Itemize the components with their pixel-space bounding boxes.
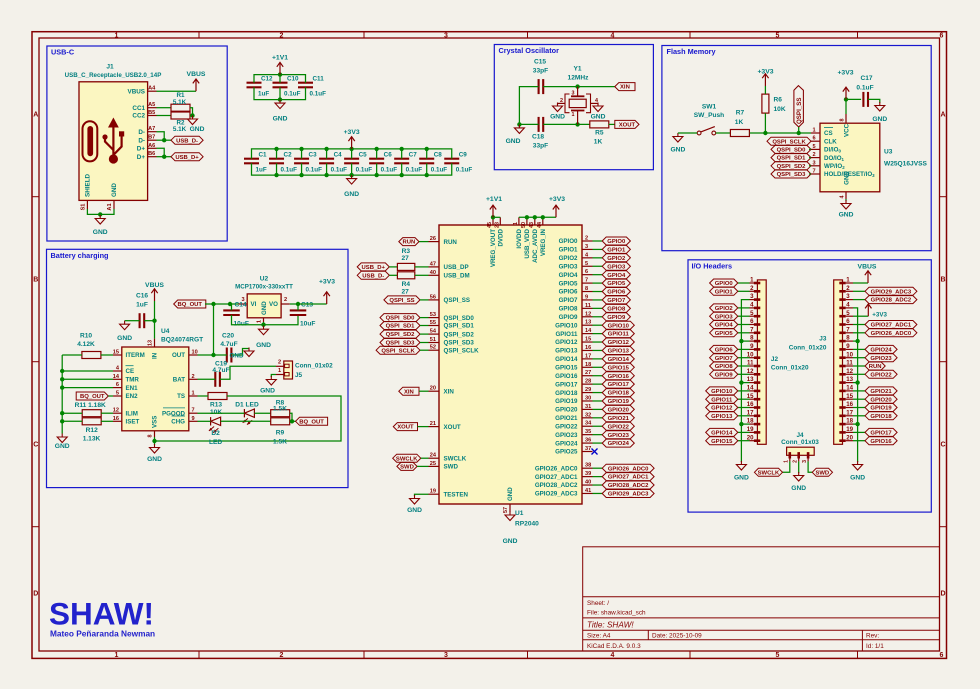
svg-text:1uF: 1uF xyxy=(256,167,267,174)
svg-text:19: 19 xyxy=(846,426,853,433)
resistor R1 5.1K xyxy=(171,104,190,111)
U4 body xyxy=(122,347,189,431)
wire J3 pin 6 xyxy=(853,324,865,326)
U1 pin 25 SWD xyxy=(429,465,440,467)
svg-text:GPIO3: GPIO3 xyxy=(607,264,626,270)
wire R5 to XOUT label xyxy=(609,123,615,125)
wire U2 gnd stub down xyxy=(263,322,265,325)
svg-text:USB_D+: USB_D+ xyxy=(175,155,199,161)
wire GPIO21 xyxy=(593,417,603,419)
svg-text:GPIO0: GPIO0 xyxy=(559,238,578,245)
wire VBUS to IN xyxy=(154,301,156,339)
svg-text:GPIO21: GPIO21 xyxy=(608,416,630,422)
svg-text:16: 16 xyxy=(846,401,853,408)
svg-text:QSPI_SS: QSPI_SS xyxy=(389,298,414,304)
svg-text:1: 1 xyxy=(784,460,790,463)
svg-text:GPIO11: GPIO11 xyxy=(711,397,733,403)
wire C16 left to gnd xyxy=(125,320,140,322)
svg-text:GPIO18: GPIO18 xyxy=(555,390,578,397)
U1 pin 6 GPIO4 xyxy=(582,274,593,276)
diode D1 LED xyxy=(243,409,245,417)
svg-text:EN2: EN2 xyxy=(126,393,139,400)
wire USB_D+ to R3 xyxy=(389,266,397,268)
svg-text:GPIO0: GPIO0 xyxy=(715,281,734,287)
svg-text:1K: 1K xyxy=(594,139,603,146)
J3 pin 11 xyxy=(846,365,853,367)
svg-text:5: 5 xyxy=(776,652,780,659)
label SWD U1 xyxy=(397,462,417,470)
svg-text:7: 7 xyxy=(846,326,850,333)
power flag +3V3 R6 xyxy=(764,74,766,86)
label QSPI_SD1 U1 xyxy=(380,322,420,330)
svg-text:Conn_01x03: Conn_01x03 xyxy=(781,439,819,446)
svg-text:GPIO27_ADC1: GPIO27_ADC1 xyxy=(871,323,912,329)
svg-text:QSPI_SD2: QSPI_SD2 xyxy=(777,164,807,170)
svg-text:3: 3 xyxy=(572,91,575,97)
label SWCLK U1 xyxy=(393,454,421,462)
ground GND TESTEN xyxy=(414,495,416,499)
J2 pin 1 xyxy=(750,282,758,284)
wire GPIO10 xyxy=(593,324,603,326)
wire GPIO24 xyxy=(593,442,603,444)
wire SWD U1 xyxy=(417,465,428,467)
svg-text:D: D xyxy=(940,591,945,598)
label GPIO27_ADC1 xyxy=(602,473,654,481)
svg-text:31: 31 xyxy=(585,404,591,410)
svg-text:GPIO6: GPIO6 xyxy=(715,348,734,354)
label GPIO1 J2 xyxy=(710,287,738,295)
wire cap bus bottom xyxy=(254,87,306,99)
J3 pin 6 xyxy=(846,324,853,326)
svg-text:C20: C20 xyxy=(222,333,234,340)
svg-text:6: 6 xyxy=(940,652,944,659)
label QSPI_SD0 U1 xyxy=(380,314,420,322)
J3 pin 14 xyxy=(846,390,853,392)
svg-text:40: 40 xyxy=(585,480,591,486)
svg-text:15: 15 xyxy=(846,393,853,400)
svg-text:GPIO12: GPIO12 xyxy=(608,340,630,346)
svg-text:TESTEN: TESTEN xyxy=(444,491,469,498)
wire GPIO27_ADC1 xyxy=(593,476,603,478)
J2 pin 14 xyxy=(750,390,758,392)
svg-text:25: 25 xyxy=(430,461,436,467)
U3 pin 1 CS xyxy=(811,132,820,134)
svg-text:28: 28 xyxy=(585,379,591,385)
svg-text:GPIO16: GPIO16 xyxy=(870,439,892,445)
svg-text:ADC_AVDD: ADC_AVDD xyxy=(532,228,539,262)
J3 pin 9 xyxy=(846,348,853,350)
svg-text:32: 32 xyxy=(585,412,591,418)
svg-text:11: 11 xyxy=(585,303,591,309)
svg-text:VCC: VCC xyxy=(844,123,851,137)
capacitor C9 0.1uF xyxy=(444,158,459,160)
U4 pin 15 ITERM xyxy=(113,354,122,356)
svg-text:SWCLK: SWCLK xyxy=(444,455,467,462)
U4 pin 12 ILIM xyxy=(113,412,122,414)
svg-text:QSPI_SCLK: QSPI_SCLK xyxy=(444,347,480,354)
wire XOUT U1 xyxy=(418,426,429,428)
svg-text:GPIO12: GPIO12 xyxy=(555,339,578,346)
svg-text:9: 9 xyxy=(192,416,195,422)
svg-text:GPIO15: GPIO15 xyxy=(711,439,733,445)
label GPIO27_ADC1 J3 xyxy=(865,321,917,329)
svg-text:0.1uF: 0.1uF xyxy=(406,167,423,174)
capacitor C11 0.1uF xyxy=(298,82,313,84)
svg-text:A7: A7 xyxy=(148,126,155,132)
wire R9 to BQ_OUT xyxy=(290,420,296,422)
svg-text:USB_DM: USB_DM xyxy=(444,273,470,280)
svg-text:R5: R5 xyxy=(595,130,604,137)
power flag +3V3 flash xyxy=(845,87,847,99)
wire J2 pin 18 to bus xyxy=(741,423,749,425)
svg-text:34: 34 xyxy=(585,421,592,427)
svg-text:Id: 1/1: Id: 1/1 xyxy=(866,643,884,650)
U1 pin 56 QSPI_SS xyxy=(429,299,440,301)
svg-text:C: C xyxy=(940,442,945,449)
svg-text:1: 1 xyxy=(115,652,119,659)
label GPIO4 xyxy=(602,271,630,279)
svg-text:1: 1 xyxy=(115,33,119,40)
U4 pin 2 BAT xyxy=(189,378,198,380)
svg-text:WP/IO2: WP/IO2 xyxy=(824,163,845,170)
svg-text:J3: J3 xyxy=(819,336,827,343)
svg-text:C10: C10 xyxy=(287,76,299,83)
svg-text:Mateo Peñaranda Newman: Mateo Peñaranda Newman xyxy=(50,629,155,639)
svg-text:GPIO20: GPIO20 xyxy=(608,408,630,414)
U2 pin 1 GND xyxy=(263,318,265,322)
svg-text:USB_DP: USB_DP xyxy=(444,264,469,271)
label GPIO4 J2 xyxy=(710,321,738,329)
section box USB-C xyxy=(47,46,227,241)
svg-text:RUN: RUN xyxy=(444,239,458,246)
wire shield/gnd to ground xyxy=(87,209,114,214)
svg-text:37: 37 xyxy=(585,446,591,452)
svg-text:GPIO2: GPIO2 xyxy=(715,306,734,312)
svg-text:0.1uF: 0.1uF xyxy=(356,167,373,174)
resistor R5 1K xyxy=(590,121,609,128)
J1 pin A1 GND xyxy=(113,200,115,209)
svg-text:3: 3 xyxy=(802,460,808,463)
svg-text:27: 27 xyxy=(402,288,410,295)
J2 pin 17 xyxy=(750,415,758,417)
svg-text:GPIO11: GPIO11 xyxy=(555,331,578,338)
svg-text:3: 3 xyxy=(846,293,850,300)
svg-text:SWD: SWD xyxy=(400,465,414,471)
wire J3 pin 7 xyxy=(853,332,865,334)
power flag +3V3 caps xyxy=(351,137,353,149)
power flag +3V3 J3 xyxy=(867,304,869,316)
svg-text:C8: C8 xyxy=(434,152,443,159)
svg-text:14: 14 xyxy=(585,328,592,334)
svg-text:CLK: CLK xyxy=(824,138,837,145)
svg-text:GND: GND xyxy=(839,212,854,219)
wire SWCLK U1 xyxy=(421,457,429,459)
U1 pin 55 QSPI_SD1 xyxy=(429,325,440,327)
svg-text:XOUT: XOUT xyxy=(397,425,414,431)
svg-text:TMR: TMR xyxy=(126,377,140,384)
svg-text:GPIO1: GPIO1 xyxy=(607,248,626,254)
svg-text:Conn_01x20: Conn_01x20 xyxy=(789,345,827,352)
wire USB_D- to R4 xyxy=(389,274,397,276)
J4 pin 2 xyxy=(798,455,800,461)
svg-text:52: 52 xyxy=(430,345,436,351)
svg-text:GND: GND xyxy=(591,114,606,121)
svg-text:GPIO10: GPIO10 xyxy=(608,323,630,329)
wire J2 pin 17 xyxy=(738,415,750,417)
wire J3 pin1 to VBUS xyxy=(853,282,868,284)
svg-text:Date: 2025-10-09: Date: 2025-10-09 xyxy=(652,632,702,639)
capacitor C8 0.1uF xyxy=(419,158,434,160)
svg-text:2: 2 xyxy=(192,374,195,380)
svg-text:1: 1 xyxy=(257,320,263,323)
svg-text:44: 44 xyxy=(537,222,543,228)
wire J2 pin 5 xyxy=(738,315,750,317)
label GPIO22 J3 xyxy=(865,370,897,378)
wire GPIO1 xyxy=(593,248,603,250)
wire C20 right to gnd xyxy=(231,349,249,356)
svg-text:35: 35 xyxy=(585,429,591,435)
U1 pin 51 QSPI_SD3 xyxy=(429,342,440,344)
J4 pin 3 xyxy=(807,455,809,461)
U4 pin 4 CE xyxy=(113,370,122,372)
ground GND R2 xyxy=(192,116,194,120)
svg-text:GPIO17: GPIO17 xyxy=(608,382,630,388)
U4 pin 9 CHG xyxy=(189,420,198,422)
svg-text:USB_C_Receptacle_USB2.0_14P: USB_C_Receptacle_USB2.0_14P xyxy=(65,72,162,79)
svg-text:5: 5 xyxy=(585,261,588,267)
power flag +1V1 caps xyxy=(279,63,281,75)
svg-text:GPIO2: GPIO2 xyxy=(607,256,626,262)
wire R10 left to bus xyxy=(62,354,82,356)
label GPIO7 J2 xyxy=(710,354,738,362)
svg-text:1: 1 xyxy=(846,277,850,284)
svg-text:Conn_01x20: Conn_01x20 xyxy=(771,365,809,372)
svg-text:QSPI_SD1: QSPI_SD1 xyxy=(386,324,416,330)
U1 pin 23 DVDD xyxy=(499,217,501,225)
wire QSPI_SD2 to pin xyxy=(809,165,811,167)
svg-text:GND: GND xyxy=(850,475,865,482)
label QSPI_SCLK U1 xyxy=(376,346,420,354)
svg-text:0.1uF: 0.1uF xyxy=(306,167,323,174)
svg-text:GPIO19: GPIO19 xyxy=(870,406,892,412)
svg-text:BQ_OUT: BQ_OUT xyxy=(80,394,105,400)
svg-text:A: A xyxy=(940,112,945,119)
wire J2 pin 11 xyxy=(738,365,750,367)
ground GND C20 rotated xyxy=(248,348,250,352)
svg-text:C6: C6 xyxy=(384,152,393,159)
wire gnd bus under U2 xyxy=(232,315,299,325)
capacitor C18 33pF xyxy=(538,117,540,132)
wire J2 pin 19 xyxy=(738,431,750,433)
U1 pin 20 XIN xyxy=(429,390,440,392)
svg-text:Flash Memory: Flash Memory xyxy=(667,47,717,56)
wire J2 pin 10 xyxy=(738,357,750,359)
svg-text:1.5K: 1.5K xyxy=(273,439,287,446)
wire RUN xyxy=(419,241,429,243)
svg-text:4.7uF: 4.7uF xyxy=(220,341,237,348)
label GPIO24 J3 xyxy=(865,345,897,353)
svg-text:GPIO5: GPIO5 xyxy=(715,331,734,337)
svg-text:2: 2 xyxy=(278,360,281,366)
wire D1 to R8 xyxy=(254,412,272,414)
svg-text:33pF: 33pF xyxy=(533,68,548,75)
label GPIO14 J2 xyxy=(706,428,738,436)
wire QSPI_SD1 to pin xyxy=(809,157,811,159)
svg-text:GND: GND xyxy=(344,191,359,198)
svg-text:USB_VDD: USB_VDD xyxy=(524,228,531,258)
label GPIO0 xyxy=(602,237,630,245)
wire VBUS xyxy=(157,90,197,92)
wire GPIO7 xyxy=(593,299,603,301)
ground GND Y1 left xyxy=(557,103,559,107)
svg-text:C: C xyxy=(33,442,38,449)
section box I/O Headers xyxy=(688,260,931,512)
wire J2 pin 7 xyxy=(738,332,750,334)
wire J3 pin 3 xyxy=(853,299,865,301)
label BQ_OUT right xyxy=(296,417,328,425)
wire J3 pin 18 to bus xyxy=(853,423,858,425)
wire J3 pin 11 xyxy=(853,365,865,367)
wire +3V3 bus xyxy=(519,216,556,218)
svg-text:43: 43 xyxy=(529,222,535,228)
flash U3 body xyxy=(820,123,880,192)
svg-text:Title: SHAW!: Title: SHAW! xyxy=(587,621,634,630)
J3 pin 7 xyxy=(846,332,853,334)
svg-text:QSPI_SS: QSPI_SS xyxy=(444,297,470,304)
svg-text:GPIO29_ADC3: GPIO29_ADC3 xyxy=(871,289,912,295)
svg-text:J5: J5 xyxy=(295,372,303,379)
svg-text:GND: GND xyxy=(190,126,205,133)
svg-text:13: 13 xyxy=(148,340,154,346)
svg-text:4: 4 xyxy=(611,652,615,659)
J3 pin 18 xyxy=(846,423,853,425)
svg-text:A4: A4 xyxy=(148,86,156,92)
J2 pin 12 xyxy=(750,373,758,375)
capacitor C12 1uF xyxy=(247,82,262,84)
wire R4 to USB_DM xyxy=(415,274,429,276)
svg-text:GPIO20: GPIO20 xyxy=(555,407,578,414)
U1 pin 2 GPIO0 xyxy=(582,240,593,242)
svg-text:SHAW!: SHAW! xyxy=(49,596,154,632)
svg-text:3: 3 xyxy=(444,33,448,40)
label GPIO18 J3 xyxy=(865,412,897,420)
svg-text:14: 14 xyxy=(846,385,853,392)
svg-text:GND: GND xyxy=(791,485,806,492)
svg-text:20: 20 xyxy=(430,386,436,392)
wire Y1 pin4 to gnd xyxy=(591,102,599,104)
U3 pin 5 DI xyxy=(811,148,820,150)
svg-text:4.7uF: 4.7uF xyxy=(212,367,229,374)
svg-text:3: 3 xyxy=(585,244,588,250)
J1 pin A4 VBUS xyxy=(148,90,157,92)
label QSPI_SS vertical xyxy=(794,86,804,127)
svg-text:10K: 10K xyxy=(774,106,786,113)
svg-text:+3V3: +3V3 xyxy=(319,279,335,286)
svg-text:GPIO7: GPIO7 xyxy=(715,356,734,362)
svg-text:15: 15 xyxy=(113,350,119,356)
U3 pin 3 WP xyxy=(811,165,820,167)
svg-text:XIN: XIN xyxy=(404,389,414,395)
svg-text:GPIO28_ADC2: GPIO28_ADC2 xyxy=(608,483,649,489)
svg-text:GPIO22: GPIO22 xyxy=(870,372,892,378)
wire +3V3 cap bus top xyxy=(252,149,452,159)
svg-text:GPIO25: GPIO25 xyxy=(555,449,578,456)
power flag +3V3 U1 xyxy=(555,205,557,217)
wire R6 top to +3V3 xyxy=(764,86,766,94)
svg-text:R11 1.18K: R11 1.18K xyxy=(75,402,106,409)
svg-text:GND: GND xyxy=(506,138,521,145)
ground GND U1 xyxy=(509,512,511,516)
J2 pin 4 xyxy=(750,307,758,309)
svg-text:QSPI_SD3: QSPI_SD3 xyxy=(777,172,807,178)
wire J3 pin 10 xyxy=(853,357,865,359)
label XIN xyxy=(615,83,635,91)
svg-text:2: 2 xyxy=(284,297,287,303)
svg-text:R12: R12 xyxy=(86,427,98,434)
U1 body RP2040 xyxy=(439,225,582,504)
U1 pin 9 GPIO7 xyxy=(582,299,593,301)
label RUN J3 xyxy=(865,362,885,370)
U1 pin 43 ADC_AVDD xyxy=(534,217,536,225)
svg-text:13: 13 xyxy=(846,376,853,383)
ground GND J1 xyxy=(99,215,101,219)
svg-text:GPIO5: GPIO5 xyxy=(559,280,578,287)
svg-text:U3: U3 xyxy=(884,149,893,156)
svg-text:QSPI_SS: QSPI_SS xyxy=(796,98,803,124)
wire C14 top xyxy=(231,304,233,310)
label BQ_OUT U2 input xyxy=(174,300,206,308)
wire R3 to USB_DP xyxy=(415,266,429,268)
J3 pin 20 xyxy=(846,440,853,442)
wire TS to R13 xyxy=(198,395,209,397)
svg-text:GPIO15: GPIO15 xyxy=(555,365,578,372)
svg-text:51: 51 xyxy=(430,337,436,343)
svg-text:GPIO10: GPIO10 xyxy=(555,322,578,329)
capacitor C19 4.7uF xyxy=(214,372,216,387)
label QSPI_SD2 flash xyxy=(771,162,811,170)
label BQ_OUT EN2 xyxy=(76,392,108,400)
svg-text:R3: R3 xyxy=(402,248,411,255)
svg-text:QSPI_SD0: QSPI_SD0 xyxy=(777,148,807,154)
svg-text:12: 12 xyxy=(585,311,591,317)
wire J3 pin 16 xyxy=(853,407,865,409)
svg-text:R7: R7 xyxy=(736,110,745,117)
svg-text:C17: C17 xyxy=(860,75,872,82)
svg-text:GPIO4: GPIO4 xyxy=(559,272,578,279)
svg-text:4: 4 xyxy=(840,196,846,199)
wire GPIO13 xyxy=(593,349,603,351)
svg-text:12: 12 xyxy=(113,408,119,414)
U1 pin 5 GPIO3 xyxy=(582,265,593,267)
wire J2 pin 20 xyxy=(738,440,750,442)
wire GPIO18 xyxy=(593,392,603,394)
svg-text:C12: C12 xyxy=(261,76,273,83)
svg-text:BQ_OUT: BQ_OUT xyxy=(177,302,202,308)
power flag VBUS xyxy=(195,79,197,91)
wire J2 pin 8 to bus xyxy=(741,340,749,342)
wire BQ_OUT to EN2 xyxy=(108,395,113,397)
J3 pin 16 xyxy=(846,407,853,409)
svg-text:QSPI_SD1: QSPI_SD1 xyxy=(777,156,807,162)
svg-text:24: 24 xyxy=(430,453,437,459)
svg-text:D-: D- xyxy=(138,129,145,136)
J5 pin 2 xyxy=(276,365,284,367)
J1 pin A6 D+ xyxy=(148,147,157,149)
svg-text:3: 3 xyxy=(444,652,448,659)
label GPIO5 J2 xyxy=(710,329,738,337)
svg-text:B: B xyxy=(940,277,945,284)
svg-text:XOUT: XOUT xyxy=(619,123,636,129)
